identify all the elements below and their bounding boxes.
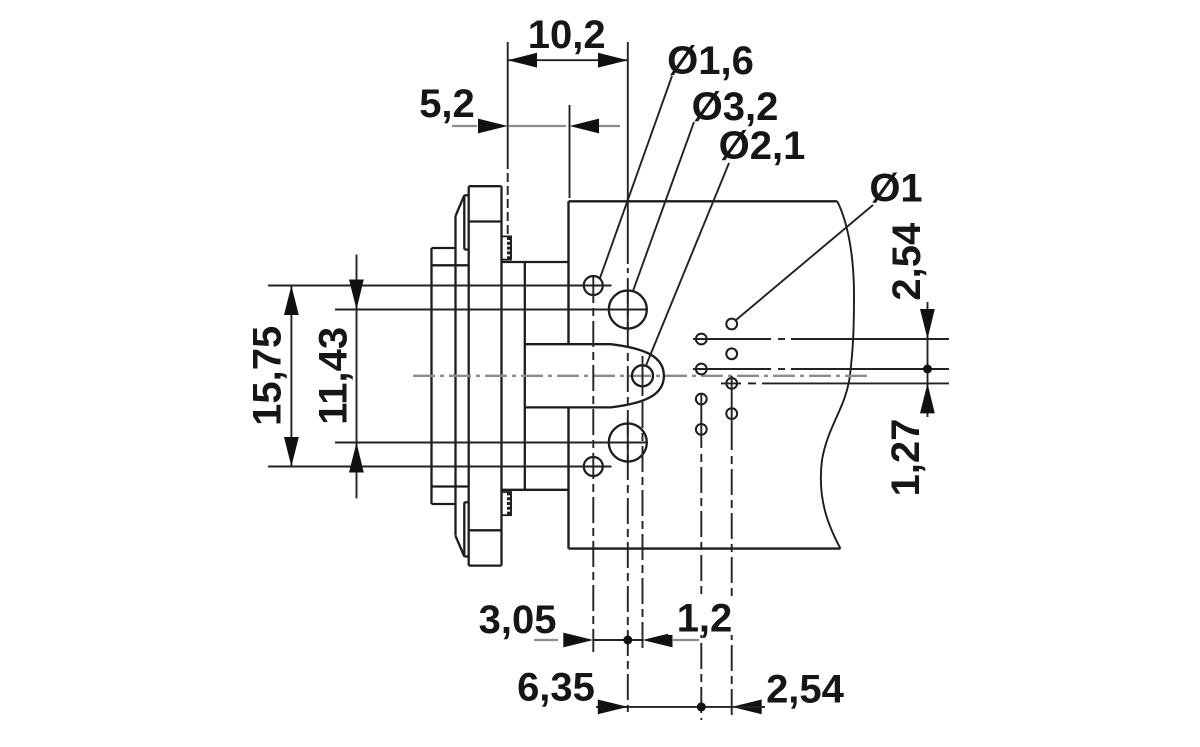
- svg-text:3,05: 3,05: [479, 598, 557, 642]
- svg-text:Ø1,6: Ø1,6: [667, 39, 754, 83]
- svg-text:2,54: 2,54: [766, 667, 845, 711]
- svg-text:1,2: 1,2: [677, 596, 733, 640]
- horizontal centerline (grey dash-dot): [413, 375, 868, 377]
- dimension 11,43: [335, 255, 648, 499]
- vertical centerline small holes col1: [700, 393, 702, 448]
- horizontal centerline row y=339 to right: [693, 338, 949, 340]
- connector flange side view: [432, 186, 502, 565]
- dimension 6,35: [596, 706, 732, 708]
- horizontal centerline row y=369 to right: [693, 368, 949, 370]
- dimension 1,2: [643, 633, 673, 648]
- small holes O1 column 1: [696, 334, 707, 435]
- hole O2,1 center: [632, 365, 653, 386]
- dimension 2,54 right: [927, 302, 929, 417]
- dimension 10,2: [508, 42, 628, 264]
- dimension 2,54 bottom: [732, 700, 762, 715]
- svg-text:5,2: 5,2: [419, 82, 475, 126]
- label O2,1 with leader: [646, 163, 729, 366]
- svg-text:10,2: 10,2: [528, 13, 606, 57]
- svg-text:Ø3,2: Ø3,2: [692, 85, 779, 129]
- label O1,6 with leader: [600, 76, 672, 278]
- hole O1,6 top: [584, 276, 603, 295]
- shell barrel between flange and panel: [502, 262, 570, 490]
- lock washer top: [502, 236, 512, 259]
- panel plate with break line: [569, 201, 855, 548]
- svg-text:Ø1: Ø1: [869, 166, 922, 210]
- svg-text:Ø2,1: Ø2,1: [719, 124, 806, 168]
- dimension 1,27 right: [920, 383, 935, 413]
- mating tongue (D profile): [525, 344, 664, 407]
- lock washer bottom: [502, 492, 512, 515]
- horizontal centerline row y=383.4 to right: [721, 382, 949, 384]
- vertical centerline through O2,1 hole: [642, 356, 644, 396]
- hole O3,2 bottom: [609, 424, 647, 462]
- vertical centerline through O3,2 holes: [627, 268, 629, 712]
- hole O3,2 top: [609, 291, 647, 329]
- label O1 with leader: [736, 205, 873, 320]
- svg-text:1,27: 1,27: [884, 419, 928, 497]
- hole O1,6 bottom: [584, 457, 603, 476]
- dimension 5,2: [452, 125, 620, 127]
- svg-text:6,35: 6,35: [517, 665, 595, 709]
- svg-text:15,75: 15,75: [245, 326, 289, 426]
- small holes O1 column 2: [726, 319, 737, 419]
- svg-text:11,43: 11,43: [311, 327, 355, 425]
- vertical centerline small holes col2: [731, 376, 733, 450]
- dimension 15,75: [268, 286, 612, 467]
- vertical centerline through O1,6 holes: [592, 277, 594, 652]
- svg-text:2,54: 2,54: [885, 222, 929, 301]
- dimension 3,05: [534, 639, 699, 641]
- label O3,2 with leader: [633, 122, 694, 291]
